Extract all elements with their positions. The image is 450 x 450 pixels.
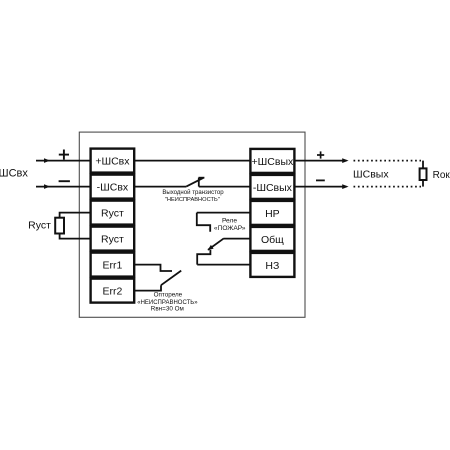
svg-text:ШСвых: ШСвых — [353, 168, 389, 180]
arrow + output — [342, 158, 348, 163]
terminal Err2 — [91, 279, 135, 303]
wire bus +ШСвх to +ШСвых — [134, 160, 250, 162]
wire transistor to -ШСвых — [199, 186, 251, 188]
wire -ШСвх to transistor — [134, 186, 186, 188]
arrow - output — [342, 184, 348, 189]
terminal НР — [250, 201, 294, 225]
terminal +ШСвых — [250, 149, 294, 173]
opto-relay VU1 blade — [161, 271, 181, 286]
svg-text:Rуст: Rуст — [28, 220, 51, 232]
svg-text:Err2: Err2 — [102, 286, 122, 298]
wire Err1 to opto contact — [134, 265, 172, 271]
arrow + input — [44, 158, 50, 163]
terminal Err1 — [91, 253, 135, 277]
relay K1 blade — [208, 238, 224, 250]
relay K1 НР fixed contact — [197, 213, 210, 232]
wire Rуст top — [60, 213, 90, 218]
device outer box U1 — [79, 132, 305, 317]
label - output — [316, 179, 325, 181]
arrow - input — [44, 184, 50, 189]
svg-text:+ШСвых: +ШСвых — [252, 156, 294, 168]
terminal Rуст upper — [91, 201, 135, 225]
svg-text:Общ: Общ — [261, 234, 284, 246]
svg-text:Rок: Rок — [433, 170, 450, 181]
svg-text:НЗ: НЗ — [265, 260, 279, 272]
svg-text:Выходной транзистор: Выходной транзистор — [162, 189, 224, 196]
wire НЗ — [197, 264, 250, 266]
label + output — [317, 151, 324, 158]
svg-text:ШСвх: ШСвх — [0, 167, 28, 179]
wire dotted - line — [354, 186, 422, 188]
relay K1 НЗ fixed contact — [197, 250, 210, 265]
label + input — [59, 150, 69, 160]
svg-text:Реле: Реле — [222, 217, 237, 224]
svg-text:+ШСвх: +ШСвх — [95, 156, 130, 168]
wire Общ — [224, 238, 251, 240]
wire + input — [36, 160, 90, 162]
wire - input — [36, 186, 90, 188]
svg-text:Rуст: Rуст — [101, 234, 124, 246]
wire Rок bottom stub — [422, 180, 424, 187]
svg-text:-ШСвых: -ШСвых — [253, 182, 293, 194]
terminal Общ — [250, 227, 294, 251]
svg-text:Оптореле: Оптореле — [154, 291, 183, 298]
svg-text:Rвн=30 Ом: Rвн=30 Ом — [151, 306, 184, 313]
terminal НЗ — [250, 253, 294, 277]
wire Rок top stub — [422, 161, 424, 169]
terminal -ШСвх — [91, 175, 135, 199]
resistor Rок — [420, 168, 427, 180]
wire dotted + line — [354, 160, 422, 162]
svg-text:Err1: Err1 — [102, 260, 122, 272]
wire - output — [294, 186, 346, 188]
terminal Rуст lower — [91, 227, 135, 251]
label - input — [59, 180, 70, 182]
resistor Rуст — [55, 218, 64, 234]
wire Err2 to opto contact — [134, 285, 161, 290]
svg-text:-ШСвх: -ШСвх — [97, 182, 129, 194]
relay K1 blade arrowhead — [208, 245, 214, 250]
wire Rуст bottom — [60, 234, 90, 239]
wire + output — [294, 160, 346, 162]
wire НР — [197, 212, 251, 214]
svg-text:Rуст: Rуст — [101, 208, 124, 220]
terminal +ШСвх — [91, 149, 135, 173]
terminal -ШСвых — [250, 175, 294, 199]
svg-text:«ПОЖАР»: «ПОЖАР» — [214, 225, 246, 232]
svg-text:НР: НР — [265, 208, 280, 220]
transistor Q1 НЕИСПРАВНОСТЬ switch — [186, 178, 204, 187]
svg-text:"НЕИСПРАВНОСТЬ": "НЕИСПРАВНОСТЬ" — [165, 197, 220, 203]
